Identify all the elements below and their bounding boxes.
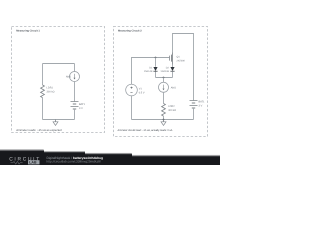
svg-text:BAT1: BAT1: [79, 103, 86, 106]
svg-text:300 kΩ: 300 kΩ: [168, 109, 176, 112]
footer attribution box segment right: [70, 153, 132, 165]
wire right mid C1: [74, 82, 76, 102]
ground C2: [161, 120, 166, 126]
svg-text:LDR2: LDR2: [168, 105, 175, 108]
svg-text:2N7000: 2N7000: [177, 59, 186, 62]
svg-text:LDR1: LDR1: [47, 87, 54, 90]
svg-text:http://circuitlab.com/c338tnxq: http://circuitlab.com/c338tnxq29mdkz8/: [47, 160, 101, 164]
wire right lower C1: [74, 109, 76, 120]
resistor LDR2: [162, 104, 166, 117]
wire source to D2: [172, 65, 174, 68]
ammeter AM1 circuit1: [70, 72, 80, 82]
wire V1 top to gate wire: [132, 58, 170, 85]
battery BAT1 circuit1: [71, 102, 79, 110]
diode D2: [170, 67, 174, 71]
wire bottom C2: [132, 119, 194, 121]
wire drain loop top: [173, 34, 194, 101]
junction bottom C2: [163, 119, 165, 121]
wire ammeter to resistor: [163, 92, 165, 103]
junction diode join: [163, 77, 165, 79]
wire join to ammeter: [163, 78, 165, 83]
mosfet Q1: [170, 53, 173, 65]
sheet border circuit 1 (dashed): [12, 27, 105, 133]
svg-text:Measuring Circuit 1: Measuring Circuit 1: [16, 30, 40, 33]
svg-text:LAB: LAB: [29, 161, 37, 165]
resistor LDR1: [41, 85, 45, 98]
voltage source V1: [126, 84, 138, 96]
svg-text:Ammeter should read: ~15 uA, a: Ammeter should read: ~15 uA, actually re…: [118, 129, 173, 132]
wire diode join: [156, 77, 173, 79]
sheet border circuit 2 (dashed): [114, 27, 208, 137]
svg-text:BAT1: BAT1: [199, 100, 206, 103]
battery BAT1 circuit2: [190, 101, 198, 109]
diode D1: [153, 67, 157, 71]
ammeter AM1 circuit2: [159, 82, 169, 92]
ground C1: [53, 120, 58, 126]
wire D1 stub top: [155, 58, 157, 67]
svg-text:300 kΩ: 300 kΩ: [47, 91, 55, 94]
svg-text:Ammeter reads: ~15 uA as expec: Ammeter reads: ~15 uA as expected: [16, 128, 62, 132]
wire V1 bottom: [131, 96, 133, 120]
footer bar full width: [0, 155, 220, 165]
wire top C1: [43, 63, 75, 65]
logo lab box: [28, 160, 40, 164]
wire right upper C1: [74, 64, 76, 72]
wire left lower C1: [42, 98, 44, 120]
svg-text:Measuring Circuit 2: Measuring Circuit 2: [118, 30, 142, 33]
svg-text:AM1: AM1: [171, 86, 177, 89]
wire resistor to bottom: [163, 116, 165, 120]
svg-text:3 V: 3 V: [79, 107, 83, 110]
wire left upper C1: [42, 64, 44, 86]
svg-text:3 V: 3 V: [199, 104, 203, 107]
junction at D1 tap: [155, 57, 157, 59]
footer attribution box segment left: [0, 149, 44, 165]
svg-text:1N4148: 1N4148: [144, 70, 153, 73]
wire battery bottom C2: [193, 108, 195, 120]
wire D2 stub bottom: [172, 71, 174, 77]
svg-text:AM1: AM1: [66, 76, 72, 79]
footer attribution box segment mid: [30, 151, 85, 165]
wire bottom C1: [43, 119, 75, 121]
wire D1 stub bottom: [155, 72, 157, 78]
svg-text:0.5 V: 0.5 V: [139, 91, 145, 94]
logo zigzag: [11, 161, 23, 164]
svg-text:1N4148: 1N4148: [160, 70, 169, 73]
